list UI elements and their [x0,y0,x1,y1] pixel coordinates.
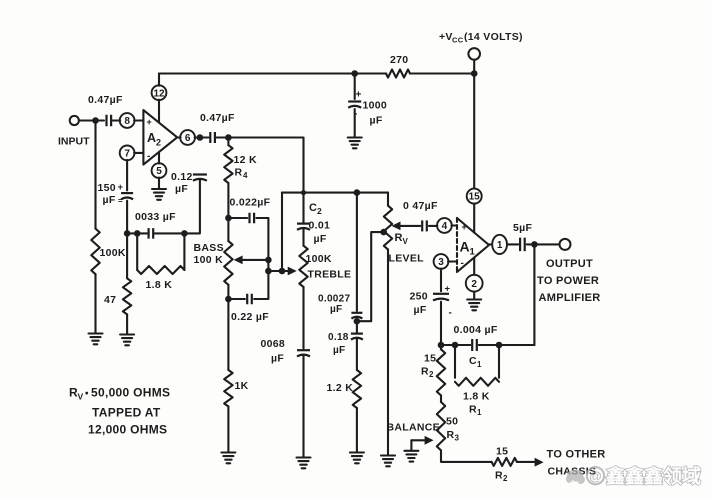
label 50 R3 [446,416,460,443]
wire treble wiper [268,267,296,276]
ground pin 5 [152,189,166,200]
capacitor C2 0.01uF [297,224,310,230]
svg-text:-: - [461,258,465,269]
svg-text:1000: 1000 [363,100,388,112]
label OUTPUT TO POWER AMPLIFIER [537,258,600,304]
pin 4 [437,218,452,233]
wire pin12 to A2 [158,100,160,122]
svg-text:50,000 OHMS: 50,000 OHMS [91,386,170,400]
svg-text:R: R [235,167,243,179]
svg-text:270: 270 [390,54,408,66]
label +Vcc (14 VOLTS) [439,31,523,45]
label 0.022uF [230,197,271,209]
wire pin5 to ground [158,178,160,189]
wire pin7 down [126,160,128,191]
ground 47 [120,335,134,346]
svg-text:V: V [403,237,409,246]
wire 0.004 rail [441,344,534,346]
svg-text:BALANCE: BALANCE [387,422,440,434]
svg-text:0033 µF: 0033 µF [135,211,176,223]
op-amp A2 [143,110,177,165]
svg-text:1K: 1K [235,380,249,392]
resistor 1.2K [353,370,361,408]
node junction tap [354,318,361,325]
svg-text:5µF: 5µF [513,222,532,234]
wire input to cap [79,119,104,121]
label INPUT [58,136,90,148]
wire C2 rail [282,192,388,194]
svg-text:150: 150 [98,182,116,194]
wire R2 to R3 [440,395,442,402]
label 15 R2 [421,353,436,380]
label 100K input [100,247,126,259]
svg-text:+: + [462,222,468,232]
capacitor 5uF [520,238,525,252]
svg-text:50: 50 [446,416,458,428]
pin 6 [180,130,195,145]
label 0.47uF after A2 [200,112,235,124]
wire R4 to 0.022 [227,183,229,218]
svg-text:0.47µF: 0.47µF [200,112,235,124]
svg-text:@: @ [589,469,602,484]
svg-text:µF: µF [414,304,427,316]
node junction Rv tap [380,229,387,236]
wire pin4 to A1 [451,224,457,226]
svg-text:8: 8 [124,116,130,127]
svg-text:3: 3 [455,434,460,443]
node pin6 output junction [197,134,204,141]
node junction rail/0.0027 [354,189,361,196]
svg-text:0.22 µF: 0.22 µF [231,311,269,323]
label 0.22uF [231,311,269,323]
svg-text:R: R [421,366,429,378]
capacitor 250uF [433,284,452,319]
label 0.068uF [261,338,286,365]
wire pin7 to A2 [134,152,143,154]
svg-text:TO POWER: TO POWER [537,275,599,287]
svg-text:R: R [447,429,455,441]
wire 0.068 to ground [302,356,304,457]
wire pin8 to A2 [134,119,143,121]
svg-text:+: + [445,284,451,295]
label TO OTHER CHASSIS [547,449,606,478]
wire Rv wiper [392,222,421,231]
svg-text:0.004 µF: 0.004 µF [454,324,498,336]
node junction output/feedback [531,241,538,248]
wire Rv bottom to ground [387,249,389,455]
resistor 47 [123,278,131,314]
svg-text:BASS: BASS [194,242,224,254]
capacitor 0.47uF after A2 [210,132,215,143]
svg-text:µF: µF [333,345,345,356]
ground balance [404,451,418,462]
wire pin15 to A1 [473,204,475,233]
svg-text:C: C [309,202,317,214]
svg-text:1: 1 [477,360,482,369]
node junction rail/1.8K right [181,230,188,237]
wire treble bottom [302,287,304,348]
label 270 [390,54,408,66]
node junction R4/0.022/bass [225,215,232,222]
wire wiper to lower node [267,260,269,271]
wire 47 to ground [126,314,128,334]
svg-text:+: + [147,117,153,127]
svg-text:µF: µF [103,194,116,206]
watermark logo and text [566,465,701,489]
node junction C2 rail left drop [281,193,283,271]
resistor 100K input [91,229,99,275]
wire R3 bottom out [441,450,492,462]
svg-text:0.18: 0.18 [328,332,349,343]
label 0.47uF input [88,94,123,106]
ground treble [297,458,311,469]
pin 12 [152,85,167,100]
svg-text:A: A [460,239,470,255]
svg-text:1: 1 [497,240,503,251]
wire input junction down [94,121,96,229]
svg-text:TAPPED AT: TAPPED AT [92,406,161,420]
pin 5 [152,163,167,178]
label BALANCE [387,422,440,434]
svg-text:µF: µF [330,304,342,315]
svg-text:µF: µF [271,353,284,365]
node input junction [92,117,99,124]
resistor R2 15 [437,349,445,395]
label 1.2K [327,382,354,394]
label 1K [235,380,249,392]
svg-text:100K: 100K [306,253,332,265]
wire cap to pin4 [429,225,438,227]
svg-text:0068: 0068 [261,338,286,350]
svg-text:TREBLE: TREBLE [308,269,352,281]
svg-text:0.47µF: 0.47µF [88,94,123,106]
wire feedback drop [533,244,535,345]
label Rv [395,232,409,246]
svg-text:15: 15 [424,353,436,365]
node junction bass wiper [265,257,272,264]
potentiometer TREBLE 100K [299,246,307,287]
label 0.004uF [454,324,498,336]
label 47 [104,294,116,306]
wire R3 wiper [411,436,433,445]
svg-text:6: 6 [185,133,191,144]
svg-text:47: 47 [104,294,116,306]
wire tap link [357,232,384,321]
capacitor 0.022uF [250,213,255,224]
label LEVEL [389,253,425,265]
svg-text:-: - [449,308,453,319]
svg-text:µF: µF [175,183,188,195]
svg-text:OUTPUT: OUTPUT [546,258,593,270]
wire 1K leg [227,299,229,370]
capacitor 0.12uF [193,175,207,181]
capacitor 0.0027uF [351,313,362,319]
svg-text:4: 4 [243,171,248,180]
ground 1000uF [348,138,362,149]
label 1.8K [146,279,173,291]
resistor 270 [386,70,410,78]
svg-text:100 K: 100 K [194,254,224,266]
svg-text:0.01: 0.01 [309,220,331,232]
svg-text:µF: µF [314,233,327,245]
node junction wiper rail [279,268,286,275]
svg-text:µF: µF [370,115,383,127]
svg-text:•: • [85,389,89,400]
svg-text:鑫鑫鑫领域: 鑫鑫鑫领域 [605,465,701,488]
svg-text:=: = [118,197,123,206]
wire to other chassis arrow [517,458,544,467]
node junction rail/47 [124,230,131,237]
label 1.8K R1 [463,391,490,418]
wire 100K to ground [94,274,96,333]
svg-text:0.022µF: 0.022µF [230,197,271,209]
capacitor 0.068uF [297,350,310,356]
wire C2 to treble [302,193,304,246]
label 150uF [98,182,116,206]
pin 1 [492,235,507,254]
node junction bus/1000uF [351,70,358,77]
wire 0.0027 leg [356,193,358,311]
resistor 1.8K loop [137,233,184,274]
wire 47 leg [126,233,128,278]
label C1 [469,355,482,369]
wire 0.022 leads [228,218,268,260]
wire pin3 to A1 [448,260,457,262]
wire cap to pin8 [111,119,120,121]
svg-text:0 47µF: 0 47µF [403,200,438,212]
note Rv value [69,386,170,437]
svg-text:12: 12 [153,88,165,99]
wire 5uF to terminal [527,243,560,245]
wire 0.22 leads [228,271,268,299]
potentiometer Rv [384,206,392,250]
wire top supply bus [159,72,474,74]
svg-text:C: C [469,355,477,367]
capacitor 0.47uF A1 input [422,220,427,231]
capacitor 0.22uF [247,294,252,305]
svg-text:R: R [495,470,503,482]
svg-text:100K: 100K [100,247,126,259]
wire bass pot bottom leg [227,285,229,299]
ground Rv [381,456,395,467]
svg-text:+: + [118,182,124,193]
label 250uF [410,291,428,317]
svg-text:V: V [78,392,84,402]
svg-text:2: 2 [156,138,161,148]
op-amp A1 [457,218,489,272]
wire R4 top leg [227,138,229,146]
wire wiper to ground [410,440,412,450]
svg-text:1.8 K: 1.8 K [146,279,173,291]
svg-text:R: R [469,404,477,416]
wire 1.2K to ground [356,408,358,452]
terminal Vcc [468,48,480,60]
wire 1000uF cap leg [354,74,356,100]
svg-text:INPUT: INPUT [58,136,90,148]
svg-text:2: 2 [317,206,322,216]
svg-text:1.2 K: 1.2 K [327,382,354,394]
svg-text:1: 1 [470,247,476,258]
svg-text:7: 7 [124,149,130,160]
capacitor 0.18uF [351,334,363,340]
svg-text:15: 15 [496,446,508,458]
node junction rail/R1 left [452,342,459,349]
capacitor 1000uF [348,90,361,120]
wire 0.18 leads [356,321,358,370]
svg-text:3: 3 [438,257,444,268]
wire cap to treble feed [217,138,304,193]
terminal OUTPUT [560,239,571,250]
node junction R4 top [225,134,232,141]
svg-text:(14 VOLTS): (14 VOLTS) [464,31,523,43]
wire Rv top leg [387,193,389,206]
label 0.18uF [328,332,349,356]
label 15 R2 bottom [495,446,508,484]
wire 250uF to rail [440,302,442,345]
svg-text:1.8 K: 1.8 K [463,391,490,403]
svg-text:0.12: 0.12 [171,171,193,183]
svg-text:12,000 OHMS: 12,000 OHMS [88,423,167,437]
svg-text:A: A [147,131,156,145]
pin 8 [120,113,135,128]
resistor R1 1.8K loop [455,345,499,386]
wire 0.0027 to node [356,318,358,321]
node junction bass bottom [225,296,232,303]
svg-text:2: 2 [503,474,508,483]
label 12K R4 [234,154,257,180]
label 100K TREBLE [306,253,352,281]
label 0.033uF [135,211,176,223]
svg-text:LEVEL: LEVEL [389,253,425,265]
svg-text:+V: +V [439,31,453,43]
svg-text:1: 1 [477,408,482,417]
label 0.47uF A1 [403,200,438,212]
svg-text:-: - [147,151,151,162]
resistor R4 12K [224,145,232,183]
ground 100K [89,334,103,345]
ground 1.2K [350,453,364,464]
svg-text:2: 2 [429,370,434,379]
wire Vcc terminal to bus [473,60,475,74]
wire pin6 to junction [195,136,209,138]
capacitor C1 0.004uF [472,339,477,351]
svg-text:TO OTHER: TO OTHER [547,449,606,461]
capacitor 0.47uF input [107,115,112,127]
node junction 0.22/treble wiper [265,268,272,275]
label BASS 100K [194,242,224,266]
wire bass wiper [234,256,269,265]
wire bass pot top leg [227,218,229,241]
capacitor 150uF [118,182,134,206]
resistor R2 15 bottom [492,458,517,466]
pin 2 [466,275,483,292]
ground 1K [221,453,235,464]
svg-text:CC: CC [452,36,464,45]
wire pin2 to ground [473,292,475,299]
wire Vcc to pin15 [473,74,475,189]
resistor 1K [224,370,232,407]
capacitor 0.033uF [149,228,154,239]
label 0.0027uF [318,294,351,316]
wire bass rail [127,180,200,234]
label 5uF [513,222,532,234]
wire A1 to pin2 [473,258,475,275]
pin 7 [120,146,135,161]
wire 150uF to rail [126,201,128,234]
label 1000uF [363,100,388,127]
pin 15 [467,189,482,204]
ground pin 2 [467,300,481,311]
svg-text:15: 15 [469,192,481,203]
node junction bus/Vcc [471,70,478,77]
wire 1K to ground [227,407,229,453]
svg-text:R: R [395,232,403,244]
svg-text:AMPLIFIER: AMPLIFIER [539,292,601,304]
svg-text:2: 2 [471,279,477,290]
svg-text:4: 4 [442,221,448,232]
potentiometer R3 BALANCE 50 [437,402,445,450]
wire A1 apex to pin1 [489,243,492,245]
svg-text:0.0027: 0.0027 [318,294,351,305]
wire pin3 down [440,269,442,292]
wire rail to R2 [440,345,442,349]
wire A2 apex to pin6 [177,136,180,138]
svg-text:du: du [569,479,579,488]
node junction rail/1.8K left [134,230,141,237]
svg-text:+: + [356,90,362,101]
wire pin1 to 5uF [507,243,518,245]
svg-text:12 K: 12 K [234,154,257,166]
node junction rail/R1 right [496,342,503,349]
svg-text:250: 250 [410,291,428,303]
potentiometer BASS 100K [224,241,232,285]
label C2 0.01uF [309,202,331,245]
node junction rail/R2 [438,342,445,349]
node junction treble top [301,190,306,195]
label 0.12uF [171,171,193,195]
pin 3 [434,254,449,269]
wire 1000uF to ground [354,109,356,137]
svg-text:5: 5 [156,166,162,177]
wire bus to pin12 [158,74,160,86]
terminal INPUT [70,116,79,125]
wire A2 to pin5 [158,152,160,163]
